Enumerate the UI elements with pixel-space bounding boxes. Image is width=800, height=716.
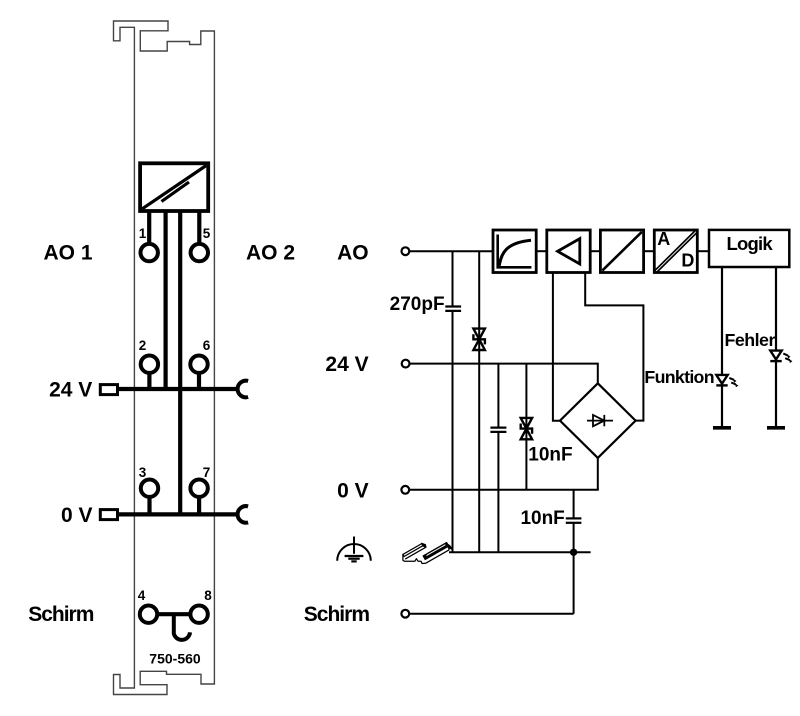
amplifier block [547,230,590,273]
svg-text:6: 6 [203,338,211,353]
shield hook J [174,616,190,640]
0V spring clamp [238,506,249,523]
svg-text:D: D [681,251,694,271]
web bottom edge [406,547,426,559]
suppressor diode pair D1 [473,329,485,350]
ground bar Fehler [767,426,785,430]
front flange dark bar [423,543,448,560]
front flange tail to wire [447,544,453,550]
LED Fehler [770,351,792,363]
svg-text:10nF: 10nF [520,508,564,529]
svg-text:5: 5 [203,226,211,241]
wire A/D to Logik [697,250,709,252]
wire 24V to bridge [410,364,598,384]
wire stem pin6 [197,373,201,389]
wire stem pin7 [197,497,201,514]
wire amp supply left [553,273,560,421]
wire AO to filter block [409,250,493,252]
amplifier triangle [558,239,580,264]
wire 0V rail [409,489,599,491]
wire Schirm [409,613,573,615]
0V field terminal square [100,510,117,520]
wire 270pF branch upper [452,251,454,306]
contact circle pin 5 [191,244,208,261]
svg-text:Schirm: Schirm [28,603,94,626]
A/D double diagonal [654,230,696,271]
wire pin1 stub [147,211,151,245]
svg-text:AO 1: AO 1 [44,241,93,264]
svg-text:Funktion: Funktion [644,367,713,387]
capacitor 10nF second [566,517,582,519]
contact circle pin 6 [190,356,207,373]
24V spring clamp [238,381,249,398]
svg-text:1: 1 [139,226,147,241]
back flange thin bar [403,544,423,557]
wire 10nF shield branch lower [573,523,575,614]
Logik block [709,230,789,267]
wire stem pin3 [147,497,151,514]
svg-text:2: 2 [139,338,147,353]
back flange end cap [422,543,426,547]
svg-text:270pF: 270pF [390,294,445,315]
svg-text:0 V: 0 V [337,479,369,502]
converter diagonal short [162,182,190,202]
svg-text:Schirm: Schirm [304,603,370,626]
converter diagonal main [142,166,206,209]
terminal circle Schirm [401,610,409,618]
wire internal bus to 24V [164,211,168,389]
contact circle pin 4 [140,606,157,623]
wire 0V rail [118,512,239,516]
filter block [493,230,536,273]
svg-text:A: A [657,229,670,249]
wire bridge to 0V [597,458,599,490]
24V field terminal square [100,385,117,395]
svg-text:AO: AO [337,241,369,264]
terminal circle 24V [402,360,410,368]
front flange highlight [427,545,445,555]
wire TVS2 branch [525,364,527,490]
contact circle pin 3 [141,480,158,497]
contact circle pin 7 [190,480,207,497]
wire filter to amp [536,250,547,252]
svg-text:750-560: 750-560 [149,650,201,666]
wire isolator to A/D [644,250,655,252]
terminal circle AO [402,247,410,255]
A/D converter block [654,230,697,273]
terminal circle 0V [401,486,409,494]
converter box U1 [140,163,208,211]
wire shield rail [449,551,591,553]
rail foot outline [403,546,449,563]
bridge rectifier [560,383,636,458]
capacitor 10nF first [490,427,506,429]
contact circle pin 2 [141,356,158,373]
capacitor 270pF [445,305,461,307]
suppressor diode pair D2 [521,418,532,439]
earth ground symbol [337,537,371,562]
svg-text:Fehler: Fehler [725,330,776,350]
wire amp supply right [585,273,643,421]
wire 24V rail [118,387,239,391]
wire Funktion LED [721,267,723,428]
wire 270pF branch lower [452,311,454,552]
svg-text:8: 8 [204,588,212,603]
LED Funktion [716,375,738,387]
filter curve [499,240,531,266]
isolator block [600,230,643,273]
wire 10nF shield branch upper [573,490,575,519]
wire stem pin2 [147,373,151,389]
svg-text:7: 7 [203,465,211,480]
svg-text:AO 2: AO 2 [246,241,295,264]
svg-text:10nF: 10nF [528,444,572,465]
wire 10nF branch [497,364,499,428]
isolator diagonal [602,232,642,271]
module outline 750-560 bus terminal [114,21,215,695]
junction dot shield node [570,549,577,556]
wire pin5 stub [197,211,201,245]
svg-text:3: 3 [139,465,147,480]
svg-text:4: 4 [138,588,146,603]
wire TVS1 branch [478,251,480,552]
svg-text:24 V: 24 V [49,379,92,402]
svg-text:24 V: 24 V [325,353,368,376]
DIN rail symbol [403,543,453,564]
wire amp to isolator [590,250,600,252]
wire internal bus to 0V [178,211,182,514]
bridge diode [587,415,613,426]
svg-text:0 V: 0 V [61,504,93,527]
ground bar Funktion [713,426,731,430]
wire pins 4-8 link [157,612,192,616]
contact circle pin 1 [141,244,158,261]
wire Fehler LED [775,267,777,428]
contact circle pin 8 [190,606,207,623]
filter axes [498,235,532,268]
svg-text:Logik: Logik [727,233,774,254]
